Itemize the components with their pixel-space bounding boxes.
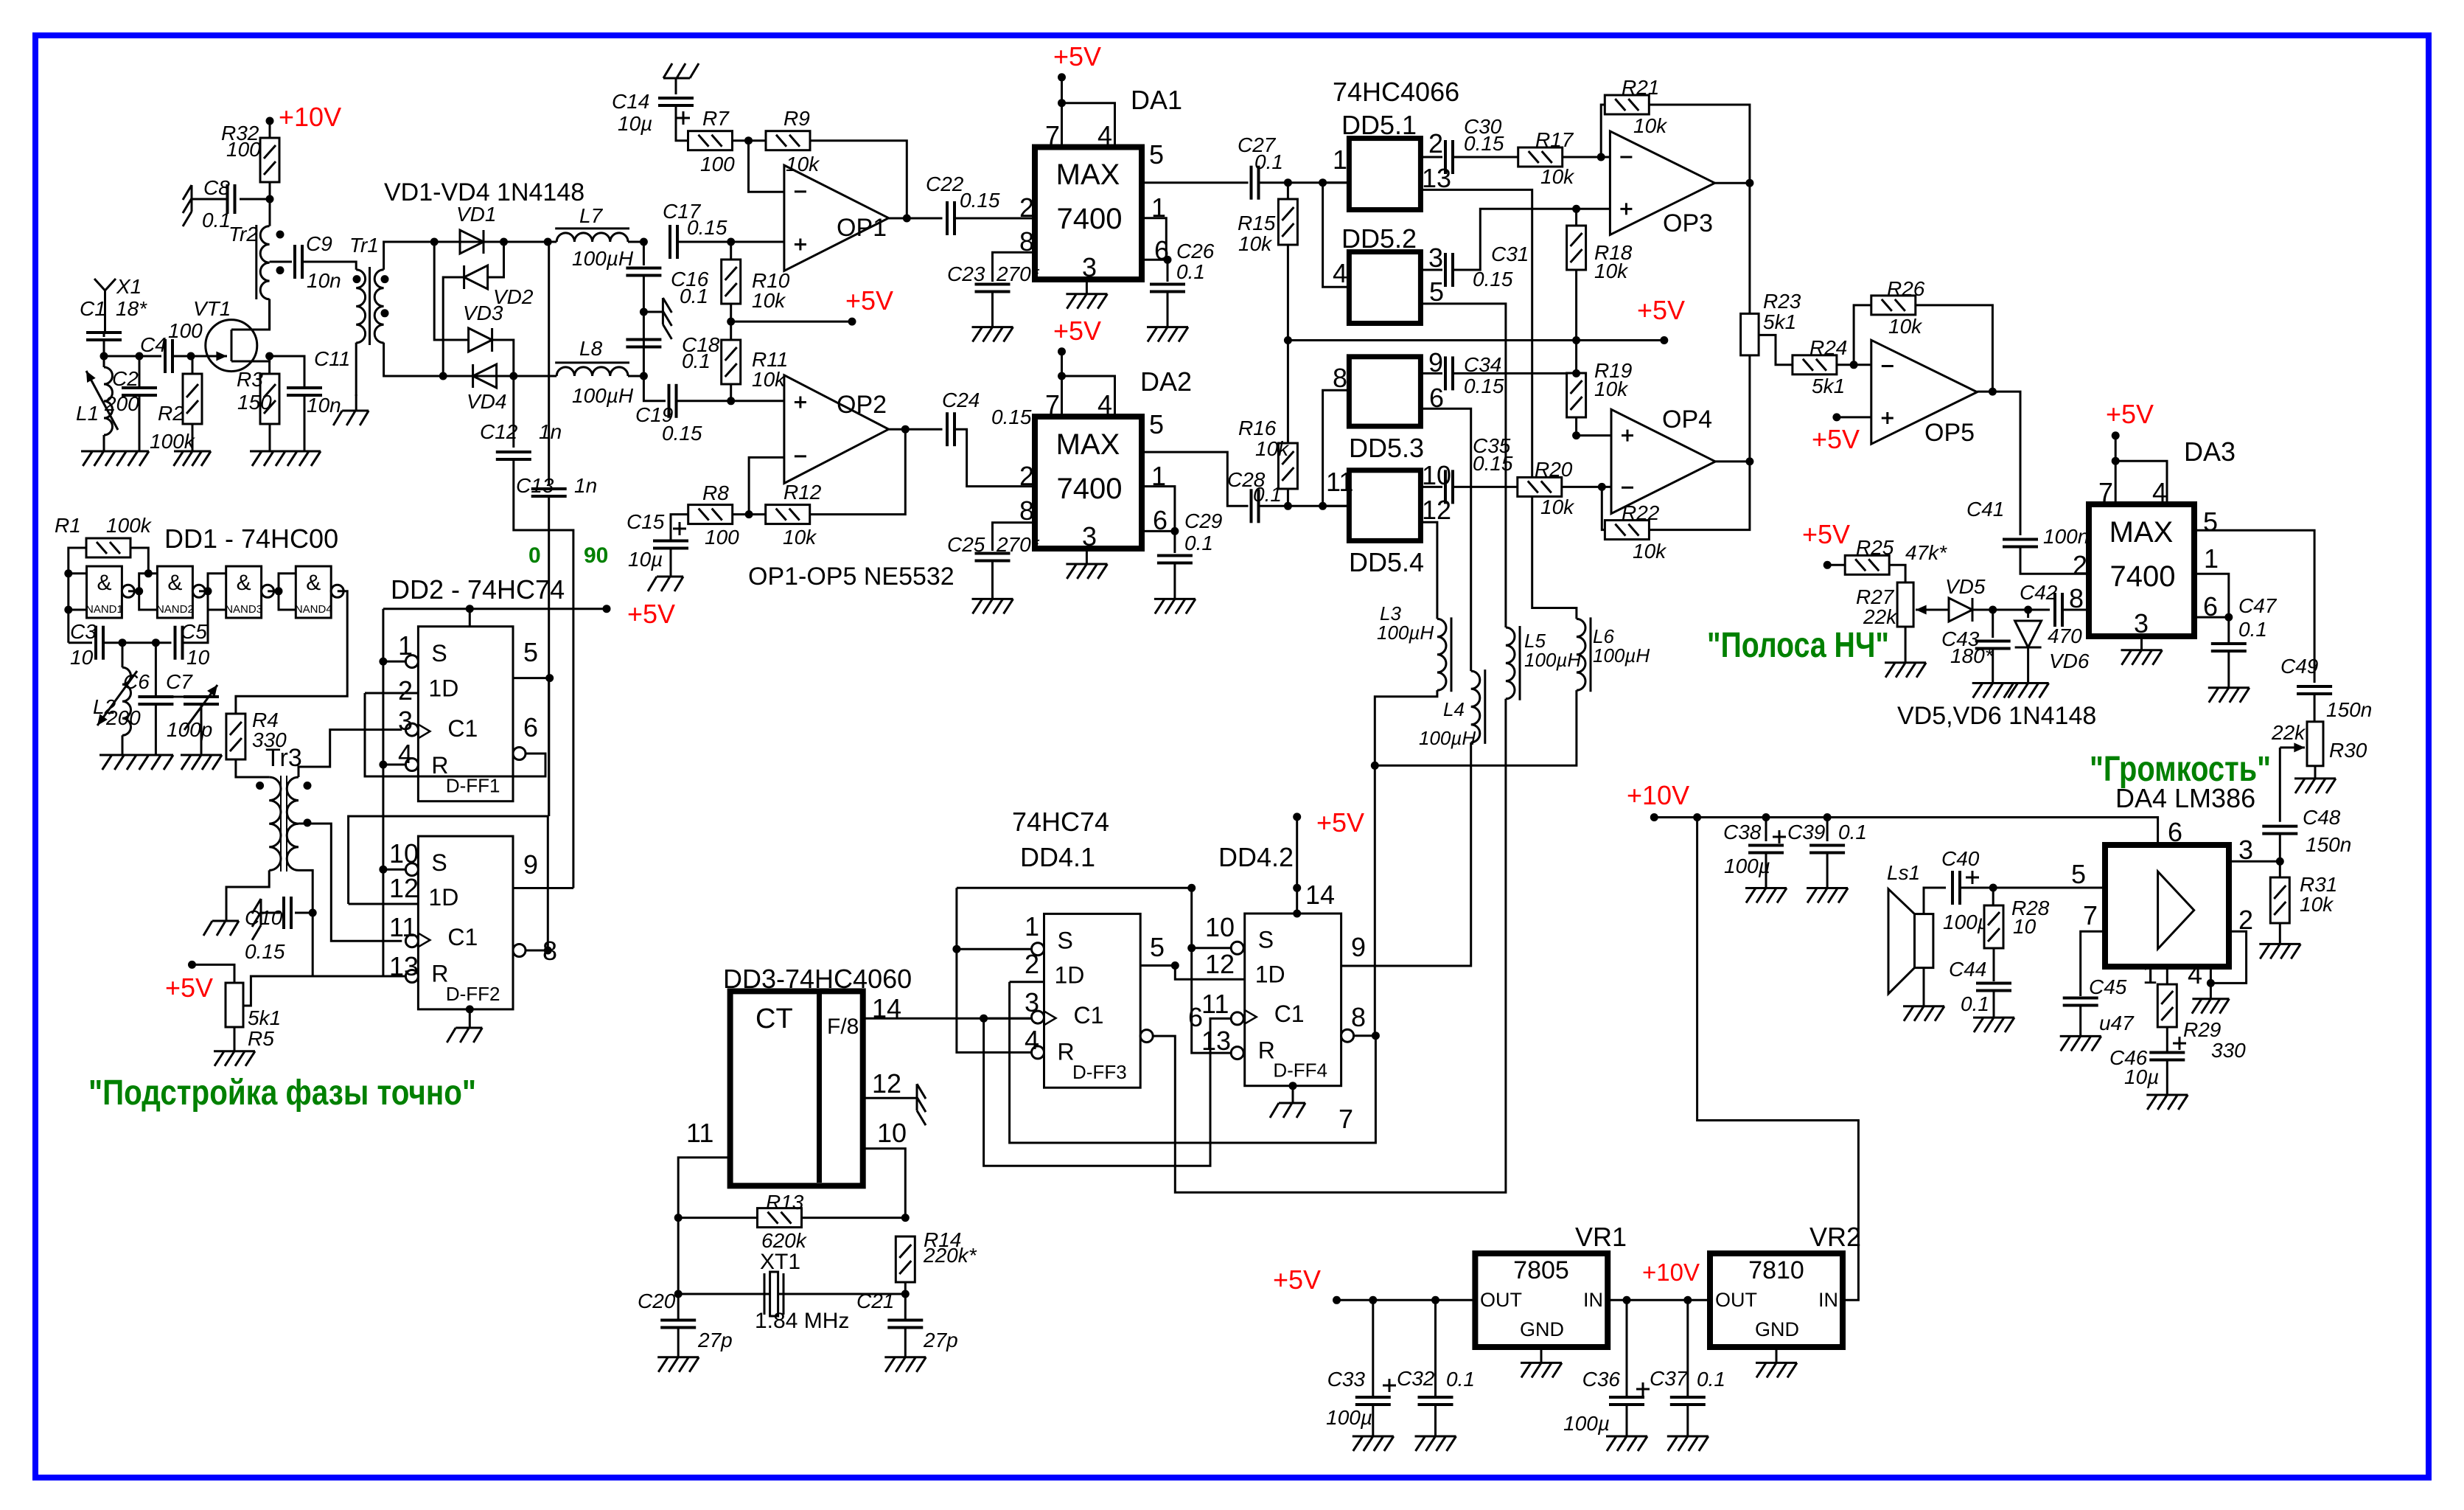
wire VT1 source bbox=[231, 356, 270, 361]
svg-text:D-FF4: D-FF4 bbox=[1273, 1060, 1327, 1082]
diode VD4 bbox=[473, 364, 497, 388]
wire C11 to ground bbox=[304, 395, 306, 451]
svg-text:10k: 10k bbox=[752, 289, 786, 312]
wire node B to VT1 gate bbox=[191, 355, 223, 358]
wire R7 to junction bbox=[733, 139, 767, 142]
svg-text:F/8: F/8 bbox=[827, 1015, 859, 1039]
wire L2 to ground bbox=[122, 735, 124, 755]
svg-text:C20: C20 bbox=[638, 1290, 676, 1312]
wire C13 to 0 channel bbox=[548, 496, 550, 816]
IC DA1 MAX7400 bbox=[1035, 147, 1142, 280]
svg-text:1: 1 bbox=[2143, 959, 2157, 989]
wire bridge bottom row bbox=[443, 375, 556, 377]
svg-text:1D: 1D bbox=[428, 884, 458, 911]
wire C24 to DA2 pin2 bbox=[954, 429, 1035, 486]
svg-text:5k1: 5k1 bbox=[1763, 310, 1796, 333]
wire C29 ground stem bbox=[1173, 563, 1176, 599]
svg-text:Tr2: Tr2 bbox=[228, 223, 258, 246]
node rail R15 bbox=[1284, 336, 1292, 344]
+10V terminal dot bbox=[266, 117, 274, 125]
wire 0 channel into pin5 bbox=[548, 678, 550, 816]
svg-text:OP1-OP5 NE5532: OP1-OP5 NE5532 bbox=[748, 563, 954, 591]
node R10 R11 junction bbox=[727, 318, 735, 326]
svg-text:C38: C38 bbox=[1723, 821, 1762, 843]
wire FF3 Q to FF4 1D bbox=[1175, 966, 1244, 980]
node I1 junction bbox=[640, 238, 648, 246]
IC DD3 74HC4060 bbox=[730, 991, 863, 1186]
svg-text:C41: C41 bbox=[1966, 498, 2004, 521]
wire R31 bottom bbox=[2279, 923, 2281, 944]
svg-text:0.15: 0.15 bbox=[991, 406, 1032, 428]
op-amp OP3 bbox=[1610, 131, 1714, 235]
wire DD5.2 pin5 out bbox=[1420, 304, 1506, 627]
svg-text:0.15: 0.15 bbox=[1464, 375, 1504, 397]
svg-text:10: 10 bbox=[1422, 460, 1451, 490]
wire R4 to Tr3 bbox=[236, 759, 269, 777]
wire DA1 pin4 bbox=[1062, 103, 1115, 147]
inductor L2 variable arrow bbox=[97, 671, 137, 726]
node NAND1 in bottom bbox=[64, 606, 72, 614]
node XT1 left bbox=[674, 1290, 683, 1298]
wire R23 wiper bbox=[1759, 335, 1793, 364]
svg-text:XT1: XT1 bbox=[760, 1250, 800, 1274]
svg-text:10k: 10k bbox=[783, 526, 817, 549]
svg-text:VD4: VD4 bbox=[467, 390, 506, 413]
node XT1 right bbox=[901, 1290, 910, 1298]
wire bias to +5V bbox=[731, 321, 852, 323]
ground under R30 bbox=[2294, 779, 2336, 793]
wire R18 top bbox=[1575, 209, 1577, 226]
node OP1 output junction bbox=[903, 215, 911, 223]
wire OP3 plus input bbox=[1577, 208, 1610, 210]
svg-text:+10V: +10V bbox=[1642, 1259, 1700, 1286]
node NAND3 out bbox=[275, 587, 283, 595]
svg-text:C8: C8 bbox=[203, 176, 230, 199]
ground under C25 bbox=[972, 599, 1013, 613]
node I3 junction bbox=[640, 372, 648, 380]
svg-text:0: 0 bbox=[528, 543, 541, 568]
switch DD5.2 bbox=[1349, 252, 1420, 324]
svg-text:100µH: 100µH bbox=[1419, 727, 1476, 749]
svg-text:C32: C32 bbox=[1397, 1367, 1435, 1390]
Tr3 phase dot right top bbox=[304, 782, 312, 790]
wire DA4 pin7 bbox=[2081, 931, 2105, 996]
svg-text:C45: C45 bbox=[2089, 975, 2127, 998]
wire R29 to C46 bbox=[2166, 1027, 2168, 1052]
svg-text:DA3: DA3 bbox=[2184, 436, 2236, 467]
wire VD6 ground stem bbox=[2027, 647, 2029, 683]
wire C28 to R16 node bbox=[1259, 505, 1350, 507]
svg-text:7400: 7400 bbox=[1057, 473, 1123, 505]
svg-text:100µ: 100µ bbox=[1943, 911, 1989, 933]
wire R19 top bbox=[1575, 341, 1577, 374]
capacitor C25 bbox=[975, 554, 1011, 561]
capacitor C33 plus sign bbox=[1383, 1379, 1396, 1392]
svg-text:3: 3 bbox=[2134, 608, 2149, 639]
wire +5V bias rail bbox=[1288, 339, 1664, 341]
svg-text:5: 5 bbox=[2203, 507, 2218, 537]
wire C39 stem bbox=[1826, 818, 1829, 842]
svg-text:14: 14 bbox=[1305, 880, 1335, 910]
svg-text:DD4.1: DD4.1 bbox=[1020, 842, 1095, 872]
node OP4 plus junction bbox=[1572, 431, 1580, 439]
svg-text:0.15: 0.15 bbox=[1473, 268, 1513, 290]
chassis ground under DFF2 bbox=[447, 1012, 482, 1043]
capacitor C46 plus sign bbox=[2173, 1037, 2186, 1050]
svg-text:OP2: OP2 bbox=[837, 391, 887, 419]
node DFF2 ground bbox=[466, 1005, 474, 1013]
svg-text:12: 12 bbox=[872, 1068, 901, 1099]
D-FF3 pin S bubble bbox=[1032, 943, 1044, 956]
wire VD2 anode up bbox=[488, 242, 504, 277]
capacitor C37 bbox=[1670, 1397, 1706, 1405]
wire pin4 ground stem bbox=[2210, 983, 2212, 998]
capacitor C43 bbox=[1975, 641, 2011, 649]
svg-text:100: 100 bbox=[700, 153, 735, 175]
svg-text:10k: 10k bbox=[1540, 495, 1575, 518]
wire DFF2 S bbox=[383, 869, 406, 871]
svg-text:DD2 - 74HC74: DD2 - 74HC74 bbox=[391, 574, 565, 605]
svg-text:6: 6 bbox=[2168, 817, 2182, 847]
wire R1 left bbox=[69, 548, 86, 643]
D-FF2 pin8 bubble bbox=[513, 944, 526, 957]
ground under R5 bbox=[214, 1051, 255, 1066]
wire X1 to C1 bbox=[103, 332, 105, 337]
node OP2 output junction bbox=[901, 425, 910, 434]
wire node A to L1 bbox=[103, 356, 105, 367]
svg-text:10k: 10k bbox=[786, 153, 820, 175]
svg-text:2: 2 bbox=[1428, 128, 1443, 159]
wire VD2 cathode down bbox=[443, 277, 464, 376]
ground under C44 bbox=[1973, 1017, 2014, 1032]
svg-text:1: 1 bbox=[1333, 145, 1347, 175]
wire Tr3 right bottom to C10 bbox=[299, 870, 383, 976]
wire R27 bottom ground bbox=[1905, 627, 1907, 663]
wire DA4 pin1 bbox=[2166, 967, 2168, 984]
svg-text:8: 8 bbox=[1333, 363, 1347, 393]
wire C31 to OP3 plus bbox=[1453, 209, 1577, 270]
D-FF3 pin C1 bubble bbox=[1032, 1011, 1044, 1023]
Tr2 phase dot top bbox=[276, 231, 285, 239]
node DA3 pin4 branch bbox=[2112, 457, 2120, 465]
transformer Tr3 right winding bbox=[287, 777, 299, 870]
wire Ls1 top bbox=[1924, 888, 1946, 914]
svg-text:+5V: +5V bbox=[1637, 295, 1685, 325]
ground under C37 bbox=[1667, 1436, 1709, 1451]
wire R1 right bbox=[130, 548, 148, 574]
svg-text:0.1: 0.1 bbox=[2238, 618, 2267, 641]
svg-text:GND: GND bbox=[1520, 1318, 1564, 1340]
svg-text:R25: R25 bbox=[1856, 536, 1894, 559]
capacitor C24 bbox=[947, 412, 954, 446]
wire DA1 pin6 bbox=[1142, 259, 1168, 261]
resistor R26 bbox=[1871, 296, 1916, 315]
resistor R17 bbox=[1518, 147, 1563, 167]
wire C19 to OP2 plus node bbox=[677, 400, 731, 402]
inductor L3 bbox=[1437, 617, 1451, 692]
svg-text:&: & bbox=[97, 571, 111, 595]
resistor R12 bbox=[766, 505, 810, 524]
bridge node top-left bbox=[430, 238, 439, 246]
wire R32 to node C8 bbox=[269, 182, 271, 226]
wire VR1 in rail bbox=[1608, 1299, 1710, 1301]
resistor R4 bbox=[226, 714, 245, 759]
svg-text:0.1: 0.1 bbox=[1176, 260, 1205, 283]
wire R10 top bbox=[730, 242, 732, 260]
capacitor C6 bbox=[138, 697, 173, 704]
svg-text:D-FF1: D-FF1 bbox=[446, 775, 500, 797]
capacitor C48 bbox=[2262, 827, 2297, 834]
svg-text:10: 10 bbox=[70, 646, 94, 669]
wire OP4 output bbox=[1715, 460, 1750, 462]
svg-text:OUT: OUT bbox=[1480, 1289, 1522, 1311]
svg-text:OP5: OP5 bbox=[1924, 419, 1975, 447]
svg-text:VR1: VR1 bbox=[1575, 1222, 1627, 1252]
svg-text:27p: 27p bbox=[697, 1329, 733, 1351]
chassis ground at C10 bbox=[252, 899, 280, 940]
chassis ground DD3 pin12 bbox=[898, 1084, 926, 1125]
svg-text:74HC4066: 74HC4066 bbox=[1333, 77, 1459, 107]
svg-text:Tr3: Tr3 bbox=[265, 744, 302, 772]
node C43 junction bbox=[1989, 606, 1997, 614]
capacitor C38 plus sign bbox=[1773, 830, 1786, 843]
svg-text:1D: 1D bbox=[1255, 961, 1285, 987]
wire C35 to R20 bbox=[1453, 486, 1518, 488]
wire C39 ground stem bbox=[1826, 853, 1829, 888]
svg-text:+5V: +5V bbox=[1273, 1264, 1321, 1295]
capacitor C19 bbox=[669, 384, 677, 418]
wire C15 to R8 bbox=[671, 515, 688, 540]
svg-text:R21: R21 bbox=[1622, 76, 1659, 99]
wire R12 to OP2 output bbox=[810, 429, 906, 514]
capacitor C13 bbox=[531, 489, 567, 496]
svg-text:DD5.3: DD5.3 bbox=[1349, 433, 1424, 463]
+5V DA2 dot bbox=[1058, 347, 1066, 355]
wire VD5 to C42 bbox=[1972, 609, 2050, 611]
capacitor C44 bbox=[1976, 984, 2011, 991]
svg-text:9: 9 bbox=[523, 849, 538, 880]
resistor R32 bbox=[260, 138, 279, 182]
node C47 junction bbox=[2224, 613, 2233, 622]
resistor R22 bbox=[1605, 521, 1649, 540]
D-FF4 pin C1 bubble bbox=[1231, 1012, 1243, 1025]
svg-text:DD4.2: DD4.2 bbox=[1218, 842, 1294, 872]
svg-text:0.1: 0.1 bbox=[1961, 992, 1989, 1015]
ground under C20 bbox=[657, 1357, 699, 1372]
transformer Tr1 left winding bbox=[356, 270, 365, 343]
svg-text:10: 10 bbox=[186, 646, 210, 669]
+5V DA1 dot bbox=[1058, 73, 1066, 81]
svg-text:0.1: 0.1 bbox=[1697, 1368, 1725, 1391]
svg-text:DD5.4: DD5.4 bbox=[1349, 547, 1424, 577]
node FF4 box top bbox=[1293, 910, 1301, 918]
transformer Tr1 core bbox=[369, 267, 371, 345]
wire DD5.4 pin12 out bbox=[1420, 522, 1437, 619]
resistor R29 bbox=[2157, 984, 2177, 1027]
svg-text:R29: R29 bbox=[2183, 1018, 2221, 1041]
diode VD6 bbox=[2015, 621, 2042, 647]
wire C20 stem bbox=[677, 1294, 680, 1320]
svg-text:DA4 LM386: DA4 LM386 bbox=[2115, 783, 2255, 813]
wire VD3 anode left bbox=[434, 242, 468, 340]
svg-text:0.15: 0.15 bbox=[1464, 132, 1504, 155]
capacitor C18 bbox=[626, 340, 661, 347]
inductor L1 variable arrow bbox=[86, 371, 118, 430]
wire L7 to node I1 bbox=[628, 241, 643, 243]
transformer Tr3 left winding bbox=[269, 777, 281, 870]
ground under C36 bbox=[1606, 1436, 1647, 1451]
svg-text:2: 2 bbox=[2073, 550, 2087, 580]
wire Tr1 right top to bridge bbox=[384, 242, 435, 270]
svg-text:18*: 18* bbox=[116, 297, 147, 320]
svg-text:4: 4 bbox=[1025, 1025, 1039, 1055]
wire DA2 pin4 bbox=[1062, 376, 1115, 417]
wire VD3 cathode down bbox=[492, 340, 514, 376]
node C36 junction bbox=[1623, 1296, 1631, 1304]
wire DA1 pin5 out bbox=[1142, 181, 1249, 184]
ground VR1 bbox=[1521, 1363, 1562, 1377]
wire DD5.4 pin11 bbox=[1323, 505, 1350, 507]
capacitor C15 bbox=[653, 541, 688, 549]
svg-text:180*: 180* bbox=[1950, 644, 1994, 667]
svg-text:100µH: 100µH bbox=[572, 247, 634, 270]
svg-text:7: 7 bbox=[2098, 477, 2113, 507]
wire L2 stem bbox=[122, 643, 124, 668]
ground DA1 pin3 bbox=[1066, 294, 1107, 309]
wire DD5.3 pin8 bbox=[1323, 390, 1350, 506]
node FF3 S junction bbox=[952, 945, 960, 953]
svg-text:VD6: VD6 bbox=[2049, 650, 2090, 672]
wire C6 C7 top link bbox=[156, 696, 201, 698]
wire +5V DD4 pin14 bbox=[1296, 817, 1298, 914]
wire OP3 output bbox=[1715, 182, 1750, 184]
svg-text:C21: C21 bbox=[856, 1290, 894, 1312]
svg-text:OP4: OP4 bbox=[1662, 406, 1712, 434]
wire C49 to R30 bbox=[2314, 694, 2316, 722]
inductor L5 bbox=[1506, 626, 1520, 700]
node FF3 pin5 junction bbox=[1171, 961, 1179, 970]
wire R30 wiper to C48 bbox=[2279, 748, 2281, 822]
svg-text:620k: 620k bbox=[761, 1229, 808, 1252]
crystal XT1 bbox=[764, 1272, 783, 1316]
capacitor C40 bbox=[1952, 871, 1960, 905]
wire FF3 S bbox=[957, 948, 1032, 950]
+5V bias terminal bbox=[848, 318, 856, 326]
svg-text:8: 8 bbox=[1019, 495, 1034, 526]
node OP4 output junction bbox=[1745, 457, 1753, 465]
speaker Ls1 bbox=[1915, 914, 1933, 968]
wire +5V DD2 rail bbox=[383, 608, 607, 610]
wire DD3 pin11 bbox=[678, 1158, 730, 1294]
wire DA2 pin3 ground bbox=[1086, 549, 1088, 564]
svg-text:R24: R24 bbox=[1809, 336, 1847, 359]
wire C16 to mid node bbox=[643, 276, 645, 376]
node DA2 pin4 branch bbox=[1058, 372, 1066, 380]
node VD6 junction bbox=[2024, 606, 2032, 614]
wire bridge to C13 bbox=[548, 242, 549, 484]
node R13 right bbox=[901, 1214, 910, 1222]
svg-text:R1: R1 bbox=[55, 514, 81, 537]
wire bridge top row bbox=[434, 241, 556, 243]
wire +10V to R32 bbox=[269, 121, 271, 139]
wire VD6 stem bbox=[2027, 610, 2029, 618]
wire C47 ground stem bbox=[2227, 651, 2230, 688]
capacitor C41 bbox=[2003, 540, 2038, 547]
wire OP4 feedback down bbox=[1602, 487, 1605, 529]
svg-text:C42: C42 bbox=[2020, 581, 2058, 604]
svg-text:0.15: 0.15 bbox=[687, 216, 727, 239]
IC VR2 7810 bbox=[1710, 1253, 1843, 1347]
svg-text:C44: C44 bbox=[1949, 958, 1986, 981]
wire VR1 gnd stem bbox=[1540, 1347, 1543, 1363]
wire DD5.2 pin4 bbox=[1323, 183, 1350, 288]
wire R19 bottom bbox=[1575, 417, 1577, 436]
wire DFF1 pin6 loop bbox=[365, 693, 545, 776]
capacitor C36 plus sign bbox=[1636, 1382, 1650, 1396]
wire R23 top bbox=[1748, 183, 1751, 313]
+5V DD2 terminal bbox=[603, 605, 611, 613]
wire C22 to DA1 pin2 bbox=[954, 218, 1035, 220]
svg-text:+5V: +5V bbox=[1053, 316, 1101, 346]
wire C6 stem bbox=[155, 643, 157, 697]
wire L4 bottom to FF4 pin9 bbox=[1341, 742, 1471, 966]
resistor R8 bbox=[688, 505, 733, 524]
node R7 R9 junction bbox=[744, 136, 753, 145]
resistor R9 bbox=[766, 131, 810, 150]
svg-text:13: 13 bbox=[1422, 163, 1451, 193]
wire DFF1 R bbox=[383, 764, 406, 766]
capacitor C12 bbox=[496, 452, 531, 459]
node R15 top junction bbox=[1284, 178, 1292, 187]
potentiometer R5 bbox=[226, 983, 243, 1027]
node OP2 plus junction bbox=[727, 397, 735, 405]
svg-text:0.15: 0.15 bbox=[960, 189, 1000, 212]
svg-text:3: 3 bbox=[1082, 521, 1097, 552]
node OP3 minus junction bbox=[1597, 153, 1605, 161]
svg-text:200: 200 bbox=[104, 392, 139, 415]
wire C21 stem bbox=[904, 1294, 907, 1320]
NAND gate NAND4 bbox=[296, 566, 331, 618]
node clock junction bbox=[980, 1015, 988, 1023]
wire NAND2 out to NAND3 bbox=[199, 590, 208, 592]
svg-text:100k: 100k bbox=[106, 514, 153, 537]
node C40 R28 junction bbox=[1989, 884, 1997, 892]
ground under C38 bbox=[1745, 888, 1787, 903]
svg-text:C12: C12 bbox=[480, 420, 518, 443]
svg-text:NAND2: NAND2 bbox=[156, 603, 194, 616]
svg-text:4: 4 bbox=[1097, 120, 1112, 150]
capacitor C16 bbox=[626, 268, 661, 276]
svg-text:7: 7 bbox=[2083, 900, 2098, 930]
svg-text:220k*: 220k* bbox=[923, 1244, 977, 1267]
svg-text:1n: 1n bbox=[574, 474, 597, 497]
wire C37 stem bbox=[1686, 1300, 1689, 1397]
D-FF4 pin S bubble bbox=[1231, 942, 1243, 954]
wire bridge to C12 bbox=[512, 376, 514, 448]
Tr3 phase dot left bbox=[256, 782, 264, 790]
wire DD5.3 pin9 out bbox=[1420, 372, 1442, 375]
resistor R28 bbox=[1984, 905, 2003, 948]
svg-text:R9: R9 bbox=[783, 107, 810, 130]
node OP4 minus junction bbox=[1598, 483, 1606, 491]
svg-text:C37: C37 bbox=[1650, 1367, 1689, 1390]
Tr1 phase dot left bbox=[353, 275, 361, 283]
svg-text:100µ: 100µ bbox=[1326, 1406, 1372, 1429]
svg-text:4: 4 bbox=[1333, 258, 1347, 288]
transformer Tr2 winding bbox=[260, 226, 269, 299]
svg-text:L8: L8 bbox=[579, 337, 603, 360]
diode VD2 bbox=[464, 265, 488, 289]
